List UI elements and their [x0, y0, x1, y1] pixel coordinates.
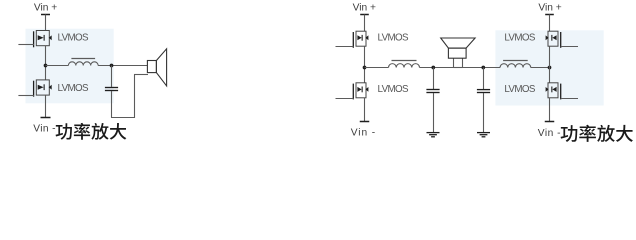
- inductor L2: [389, 64, 420, 68]
- highlight box left amplifier: [26, 29, 114, 104]
- node B junction: [110, 64, 114, 68]
- wire Vin+ to Q5: [549, 15, 551, 32]
- svg-text:LVMOS: LVMOS: [504, 33, 536, 44]
- wire C2 to ground: [433, 93, 435, 132]
- ground 1: [427, 132, 440, 134]
- svg-text:Vin -: Vin -: [538, 128, 561, 139]
- svg-text:LVMOS: LVMOS: [378, 33, 410, 44]
- wire Vin+ to Q1 drain: [45, 15, 47, 31]
- wire Q4 gate: [336, 98, 354, 100]
- wire Q6 source to Vin-: [549, 98, 551, 122]
- wire Q3 source to Q4 drain: [364, 46, 366, 83]
- svg-text:Vin +: Vin +: [353, 2, 376, 13]
- inductor L1: [68, 62, 98, 66]
- wire Q1 gate: [18, 44, 34, 46]
- wire node B to C1: [111, 66, 113, 87]
- speaker SP2: [441, 38, 475, 58]
- wire L3 to node F: [531, 67, 550, 69]
- svg-text:Vin -: Vin -: [33, 124, 56, 135]
- wire node D to C2: [433, 68, 435, 90]
- wire node A to L1: [46, 65, 69, 67]
- wire Q5 source to Q6 drain: [549, 46, 551, 83]
- wire return riser: [134, 75, 136, 119]
- transistor Q5 LVMOS (mirrored): [546, 31, 561, 48]
- wire node E to L3: [463, 67, 501, 69]
- wire L1 to speaker: [98, 65, 147, 67]
- svg-text:LVMOS: LVMOS: [504, 84, 536, 95]
- wire Q2 gate: [18, 95, 34, 97]
- wire to speaker minus: [134, 74, 148, 76]
- wire node E to C3: [483, 68, 485, 90]
- speaker SP1: [147, 49, 166, 86]
- capacitor C1: [105, 87, 118, 89]
- wire under speaker: [454, 67, 463, 69]
- transistor Q1 LVMOS (left top): [34, 31, 52, 48]
- wire L2 to node D: [420, 67, 454, 69]
- node E junction: [481, 66, 485, 70]
- transistor Q4 LVMOS: [353, 83, 368, 100]
- Vin- supply terminal bar (left): [41, 117, 51, 119]
- wire speaker plus stub: [453, 58, 455, 67]
- wire Q6 gate: [561, 98, 578, 100]
- capacitor C3: [477, 89, 490, 91]
- node C junction: [363, 66, 367, 70]
- svg-text:Vin -: Vin -: [351, 128, 376, 139]
- Vin+ supply terminal bar (left): [41, 14, 50, 16]
- ground 2: [477, 132, 490, 134]
- wire C1 to return: [111, 91, 113, 118]
- wire Q1 source to Q2 drain: [45, 46, 47, 80]
- Vin- terminal bar right leg: [545, 121, 555, 123]
- Vin+ terminal bar right leg: [545, 14, 554, 16]
- wire Q2 source to Vin-: [45, 95, 47, 117]
- node A junction: [44, 64, 48, 68]
- label power amplifier (left): [56, 123, 127, 140]
- wire node C to L2: [365, 67, 389, 69]
- transistor Q3 LVMOS: [353, 31, 368, 48]
- wire return bottom: [111, 117, 135, 119]
- transistor Q2 LVMOS (left bottom): [34, 80, 52, 97]
- node F junction: [548, 66, 552, 70]
- wire Vin+ to Q3: [364, 15, 366, 32]
- wire Q4 source to Vin-: [364, 98, 366, 122]
- Vin+ terminal bar left leg: [360, 14, 369, 16]
- capacitor C2: [426, 89, 439, 91]
- wire C3 to ground: [483, 93, 485, 132]
- Vin- terminal bar left leg: [360, 121, 370, 123]
- node D junction: [431, 66, 435, 70]
- svg-text:LVMOS: LVMOS: [58, 83, 90, 94]
- svg-text:Vin +: Vin +: [34, 2, 57, 13]
- highlight box right amplifier: [495, 30, 603, 105]
- svg-text:LVMOS: LVMOS: [58, 33, 90, 44]
- svg-text:LVMOS: LVMOS: [378, 84, 410, 95]
- wire Q5 gate: [561, 46, 578, 48]
- label power amplifier (right): [561, 125, 633, 142]
- transistor Q6 LVMOS (mirrored): [546, 83, 561, 100]
- wire speaker minus stub: [462, 58, 464, 67]
- inductor L3: [500, 64, 531, 68]
- wire Q3 gate: [336, 46, 354, 48]
- svg-text:Vin +: Vin +: [538, 2, 561, 13]
